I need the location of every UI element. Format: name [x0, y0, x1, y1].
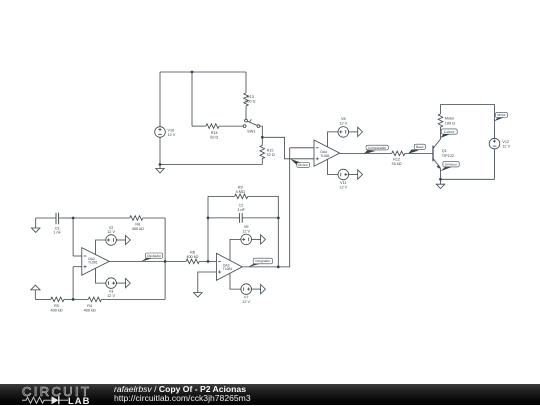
- ground G3: [31, 218, 40, 232]
- flag Coletor: [440, 129, 457, 138]
- label OA2: [88, 257, 98, 265]
- node C3/R6 junction: [72, 217, 75, 220]
- wire mid vertical: [191, 72, 193, 126]
- svg-text:1 nF: 1 nF: [53, 230, 61, 234]
- svg-text:R5: R5: [54, 304, 59, 308]
- label OA3: [223, 263, 233, 271]
- svg-text:400 kΩ: 400 kΩ: [51, 309, 63, 313]
- label R14: [210, 131, 218, 140]
- label V2: [107, 226, 115, 234]
- label R5: [51, 304, 63, 313]
- wire junction to R6: [73, 217, 130, 219]
- voltage source V10: [155, 127, 166, 138]
- svg-text:R14: R14: [211, 131, 218, 135]
- voltage source V6: [241, 234, 266, 245]
- op-amp OA2: [82, 248, 109, 276]
- svg-text:50 Ω: 50 Ω: [210, 135, 218, 139]
- ground G1: [156, 165, 165, 173]
- voltage source V12: [489, 138, 500, 149]
- svg-text:TL081: TL081: [320, 154, 330, 158]
- wire emitter lead: [440, 168, 442, 179]
- svg-text:R4: R4: [87, 304, 92, 308]
- wire V11 pin: [328, 160, 339, 175]
- svg-text:Coletor: Coletor: [444, 130, 456, 134]
- wire R9 top left: [208, 195, 235, 197]
- wire comparator output: [340, 152, 392, 154]
- label SW1: [247, 129, 255, 133]
- label R8: [186, 250, 198, 259]
- label V11: [339, 181, 347, 190]
- svg-text:4 MΩ: 4 MΩ: [236, 190, 245, 194]
- wire emitter bottom rail: [441, 178, 495, 180]
- wire motor top lead: [440, 104, 442, 114]
- wire left rail upper: [159, 72, 161, 127]
- wire switch to divider node: [260, 126, 263, 136]
- wire C2 right lead: [242, 217, 278, 219]
- resistor Motor: [438, 114, 443, 127]
- wire R6 to feedback riser: [143, 217, 165, 219]
- svg-text:12 V: 12 V: [242, 300, 250, 304]
- svg-text:12 V: 12 V: [107, 230, 115, 234]
- power arrow node: [31, 285, 40, 299]
- svg-text:1 nF: 1 nF: [237, 208, 245, 212]
- svg-text:V11: V11: [340, 181, 346, 185]
- svg-text:V12: V12: [502, 140, 509, 144]
- op-amp OA3: [216, 253, 242, 280]
- svg-text:R15: R15: [267, 148, 274, 152]
- svg-text:12 V: 12 V: [107, 294, 115, 298]
- wire left rail lower: [159, 137, 161, 164]
- wire R9 top right: [248, 196, 278, 267]
- wire + input riser: [72, 267, 74, 300]
- wire bottom rail: [160, 164, 262, 166]
- svg-text:Emissor: Emissor: [445, 162, 458, 166]
- wire top rail: [160, 71, 246, 73]
- svg-text:400 kΩ: 400 kΩ: [186, 255, 198, 259]
- wire arrow to R5: [35, 298, 51, 300]
- wire + input: [73, 266, 82, 268]
- label R12: [392, 157, 402, 166]
- wire V8 pin: [328, 132, 339, 147]
- node hysteresis junction: [72, 298, 75, 301]
- flag Integrador: [248, 258, 272, 267]
- svg-text:12 V: 12 V: [339, 121, 347, 125]
- switch SW1: [243, 119, 260, 127]
- wire V12 bottom lead: [494, 149, 496, 179]
- wire to R14: [192, 125, 206, 127]
- voltage source V8: [338, 127, 363, 138]
- svg-text:V3: V3: [109, 290, 114, 294]
- label V3: [107, 290, 115, 299]
- node A top-rail junction: [191, 71, 194, 74]
- flag Comparador: [364, 145, 389, 154]
- wire divider to comparator +: [262, 137, 314, 159]
- wire V3 pin: [96, 268, 106, 283]
- wire R12 to base: [405, 152, 433, 154]
- svg-text:R9: R9: [238, 185, 243, 189]
- node C2 left junction: [207, 217, 210, 220]
- wire - input: [73, 255, 82, 257]
- svg-text:400 kΩ: 400 kΩ: [84, 309, 96, 313]
- resistor R13: [244, 93, 249, 106]
- svg-text:100 Ω: 100 Ω: [445, 121, 455, 125]
- wire V7 pin: [230, 273, 241, 289]
- capacitor C2: [240, 213, 243, 223]
- resistor R15: [260, 137, 265, 164]
- svg-text:Q1: Q1: [442, 149, 447, 153]
- svg-text:400 kΩ: 400 kΩ: [132, 227, 144, 231]
- flag Oscilador: [141, 253, 163, 262]
- svg-text:Base: Base: [416, 145, 424, 149]
- svg-text:TL081: TL081: [223, 267, 233, 271]
- svg-text:Motor: Motor: [497, 113, 506, 117]
- label R6: [132, 222, 144, 231]
- wire - input riser: [72, 218, 74, 256]
- svg-text:V6: V6: [244, 225, 249, 229]
- ground G4: [194, 293, 203, 297]
- op-amp OA4: [314, 140, 340, 166]
- svg-text:R6: R6: [135, 222, 140, 226]
- svg-text:12 V: 12 V: [339, 185, 347, 189]
- svg-text:12 V: 12 V: [502, 145, 510, 149]
- footer url: [114, 393, 251, 403]
- wire V12 top lead: [494, 104, 496, 138]
- resistor R12: [392, 151, 405, 156]
- resistor R14: [206, 124, 219, 129]
- wire R13 bottom lead: [245, 106, 247, 120]
- wire oscillator output: [109, 260, 186, 262]
- node integrator - junction: [207, 260, 210, 263]
- resistor R4: [88, 297, 101, 302]
- svg-text:12 V: 12 V: [168, 133, 176, 137]
- label V7: [242, 296, 250, 305]
- svg-text:Motor: Motor: [445, 117, 455, 121]
- wire C2 left riser: [207, 196, 209, 261]
- label Motor resistor: [445, 117, 455, 126]
- node C2 right junction: [277, 217, 280, 220]
- wire integrator output riser: [242, 148, 290, 267]
- svg-text:V7: V7: [244, 296, 249, 300]
- capacitor C3: [56, 213, 59, 225]
- label V12: [502, 140, 510, 149]
- svg-text:SW1: SW1: [247, 129, 255, 133]
- resistor R8: [186, 259, 199, 264]
- svg-text:52 Ω: 52 Ω: [267, 153, 275, 157]
- wire R14 to switch: [219, 125, 243, 127]
- svg-text:R8: R8: [190, 250, 195, 254]
- CircuitLab logo wordmark: [22, 384, 91, 399]
- svg-text:R13: R13: [247, 95, 254, 99]
- wire R8 to - input: [199, 260, 216, 262]
- node emitter-ground junction: [439, 178, 442, 181]
- label OA4: [320, 150, 330, 158]
- svg-text:TIP122: TIP122: [442, 154, 454, 158]
- flag Divisor: [290, 159, 309, 168]
- svg-text:Divisor: Divisor: [298, 163, 309, 167]
- wire R4 to feedback riser: [102, 298, 166, 300]
- CircuitLab logo resistor-diode glyph: [21, 394, 93, 406]
- wire C3 to junction: [59, 217, 74, 219]
- flag Motor: [494, 112, 507, 121]
- svg-text:V8: V8: [341, 117, 346, 121]
- svg-text:Oscilador: Oscilador: [147, 254, 162, 258]
- voltage source V11: [338, 169, 363, 180]
- wire + input to ground: [198, 272, 217, 293]
- label V8: [339, 117, 347, 126]
- transistor Q1: [433, 139, 441, 169]
- flag Emissor: [440, 162, 459, 172]
- node divider junction: [261, 136, 264, 139]
- label R4: [84, 304, 96, 313]
- label R9: [236, 185, 245, 194]
- wire C2 left lead: [208, 217, 240, 219]
- wire comparator - input: [290, 147, 314, 149]
- svg-text:50 kΩ: 50 kΩ: [392, 162, 402, 166]
- label C2: [237, 203, 245, 212]
- node ground junction: [159, 163, 162, 166]
- label R13: [245, 95, 255, 104]
- ground G2: [436, 179, 445, 188]
- resistor R6: [130, 216, 143, 221]
- voltage source V2: [106, 235, 131, 246]
- footer title: [114, 384, 246, 394]
- node oscillator output junction: [164, 260, 167, 263]
- resistor R5: [51, 297, 64, 302]
- resistor R9: [235, 194, 248, 199]
- svg-text:Comparador: Comparador: [368, 146, 387, 150]
- svg-text:12 V: 12 V: [242, 230, 250, 234]
- svg-text:500 Ω: 500 Ω: [245, 100, 255, 104]
- label Q1: [442, 149, 454, 158]
- label C3: [53, 226, 61, 234]
- wire V6 pin: [230, 239, 241, 260]
- wire feedback riser: [164, 218, 166, 299]
- wire R13 top lead: [245, 72, 247, 93]
- svg-text:TL081: TL081: [88, 261, 98, 265]
- voltage source V7: [241, 284, 266, 295]
- wire gnd to C3: [36, 217, 56, 219]
- label V10: [168, 129, 176, 138]
- wire R5 to junction: [64, 298, 88, 300]
- svg-text:V10: V10: [168, 129, 175, 133]
- node feedback junction: [277, 266, 280, 269]
- svg-text:Integrador: Integrador: [255, 259, 271, 263]
- wire collector lead: [440, 127, 442, 139]
- voltage source V3: [106, 278, 131, 289]
- wire V2 pin: [96, 240, 106, 255]
- svg-text:C2: C2: [239, 203, 244, 207]
- flag Base: [408, 144, 426, 154]
- svg-text:R12: R12: [393, 157, 400, 161]
- label V6: [242, 225, 250, 234]
- label R15: [267, 148, 275, 157]
- wire motor top rail: [441, 103, 495, 105]
